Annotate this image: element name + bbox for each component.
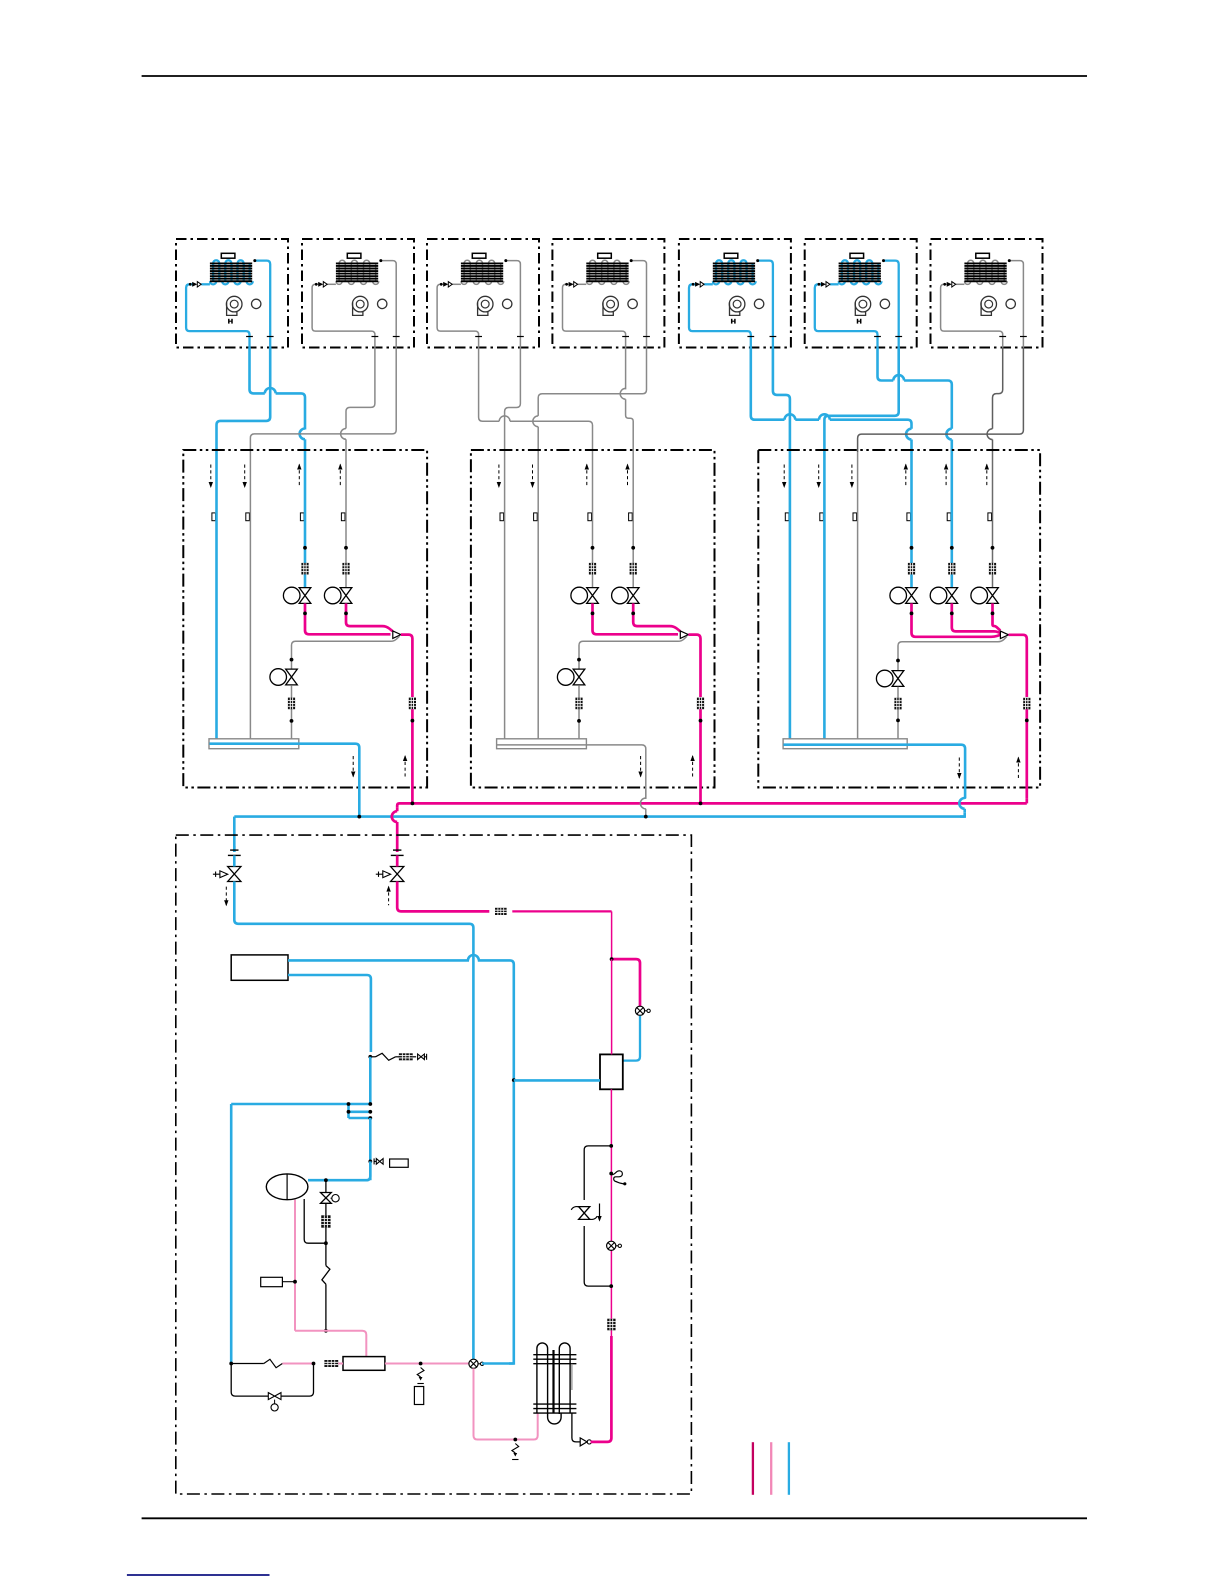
gas stop valve flow arrow: [225, 887, 227, 906]
BS unit 2 port 4 strainer: [630, 563, 637, 575]
BS unit 1 discharge line to field piping: [411, 709, 414, 803]
subcool branch to injection EEV: [612, 959, 640, 1006]
discharge check valve: [580, 1438, 587, 1446]
economizer loop left: [230, 1104, 233, 1364]
BS unit 1 port 1 flow arrow: [210, 465, 212, 488]
BS unit 2 motorized valve for port 4: [612, 587, 629, 604]
footer link underline: [127, 1574, 270, 1576]
BS unit 1 port 3 union: [300, 513, 304, 521]
indoor unit 3 pipe unions: [475, 336, 482, 338]
indoor unit 2 fan motor: [378, 299, 387, 308]
compressor discharge to oil separator: [474, 1368, 538, 1439]
indoor unit 4 room-thermistor label box: [598, 253, 612, 258]
BS unit 2 port 3 pipe: [592, 452, 594, 588]
indoor unit 7 pipe unions: [999, 336, 1006, 338]
oil return line to junction: [325, 1228, 327, 1244]
indoor unit 5 enclosure: [679, 239, 791, 348]
wire unit3 gas to BS2 port1: [505, 348, 521, 453]
indoor unit 5 drain pump mark: [731, 319, 733, 324]
riser electronic expansion valve: [607, 1241, 616, 1250]
bypass solenoid loop: [231, 1364, 268, 1397]
BS unit 3 port 1 pipe: [789, 452, 792, 739]
indoor unit 6 expansion valve: [826, 282, 830, 287]
right end of suction main: [963, 797, 966, 800]
indoor unit 7 liquid pipe: [956, 283, 965, 285]
legend discharge gas line sample: [752, 1442, 754, 1495]
BS unit 1 enclosure: [183, 450, 427, 788]
BS unit 3 port 5 pipe: [950, 452, 953, 588]
BS unit 2 port 1 flow arrow: [498, 465, 500, 488]
indoor unit 3 liquid pipe: [452, 283, 461, 285]
bypass flow arrow: [599, 1204, 601, 1217]
BS unit 3 port 3 pipe: [857, 452, 859, 739]
liquid line strainer: [495, 908, 507, 915]
junction BS2 discharge to main: [699, 802, 703, 806]
indoor unit 3 fan: [477, 296, 493, 312]
indoor unit 4 gas pipe: [631, 261, 646, 348]
indoor unit 5 fan: [729, 296, 745, 312]
suction connection from receiver box top: [288, 959, 469, 962]
legend suction gas line sample: [788, 1442, 790, 1495]
BS unit 1 merge joint: [393, 631, 401, 639]
oil separator coil: [537, 1343, 548, 1414]
indoor unit 3 gas pipe: [506, 261, 521, 348]
BS2 suction drop with crossover: [645, 788, 647, 799]
BS unit 3 port 2 union: [820, 513, 824, 521]
indoor unit 1 pipe unions: [246, 336, 253, 338]
indoor unit 7 expansion valve: [952, 282, 956, 287]
BS unit 3 port 3 flow arrow: [851, 465, 853, 488]
BS unit 3 high-pressure merge from port6 valve: [993, 603, 1001, 630]
BS unit 3 port 6 strainer: [989, 563, 996, 575]
BS unit 3 port 4 strainer: [908, 563, 915, 575]
BS unit 3 port 1 flow arrow: [783, 465, 785, 488]
indoor unit 5 room-thermistor label box: [724, 253, 738, 258]
wire unit7 gas to BS3 port3: [858, 348, 1024, 453]
compressor: [343, 1357, 385, 1371]
four-way joint expansion valve: [469, 1359, 478, 1368]
indoor unit 6 fan: [855, 296, 871, 312]
BS unit 3 motorized valve for port 4: [890, 587, 907, 604]
BS unit 2 port 1 pipe: [504, 452, 506, 739]
indoor unit 3 expansion valve: [448, 282, 452, 287]
accumulator inlet line: [308, 1161, 370, 1180]
bottom horizontal rule: [142, 1517, 1087, 1519]
accumulator oil drain line: [304, 1199, 326, 1243]
BS unit 1 port 2 pipe: [249, 452, 251, 739]
suction line to accumulator: [369, 1118, 372, 1180]
indoor unit 7 enclosure: [931, 239, 1043, 348]
indoor unit 5 gas pipe: [758, 261, 773, 348]
BS unit 1 motorized valve for port 4: [324, 587, 341, 604]
wire unit7 liquid to BS3 port6: [993, 348, 1003, 429]
BS unit 2 port 4 union: [629, 513, 633, 521]
BS unit 3 high-pressure merge from port5 valve: [952, 603, 1001, 633]
indoor unit 3 room-thermistor label box: [472, 253, 486, 258]
indoor unit 1 fan motor: [252, 299, 261, 308]
BS unit 1 port 4 union: [341, 513, 345, 521]
BS unit 3 port 5 strainer: [948, 563, 955, 575]
BS unit 2 discharge strainer: [697, 698, 704, 710]
compressor discharge pink line: [385, 1363, 469, 1365]
BS unit 3 suction line to header: [897, 687, 899, 739]
wire unit6 gas to BS3 port2: [824, 348, 898, 453]
BS unit 2 suction strainer: [575, 698, 582, 710]
indoor unit 2 room-thermistor label box: [347, 253, 361, 258]
BS unit 3 port 4 flow arrow: [905, 465, 907, 488]
bypass pressure regulating valve: [579, 1207, 590, 1220]
injection electronic expansion valve: [635, 1006, 644, 1015]
indoor unit 5 liquid pipe: [704, 283, 713, 285]
indoor unit 5 heat exchanger coil: [713, 260, 756, 284]
indoor unit 6 heat exchanger coil: [839, 260, 882, 284]
economizer strainer: [324, 1360, 338, 1367]
junction BS1 discharge to main: [411, 802, 415, 806]
BS unit 2 port 4 flow arrow: [627, 465, 629, 488]
wire unit5 gas to BS3 port1: [773, 348, 790, 453]
BS unit 2 suction gas out: [497, 744, 586, 746]
indoor unit 2 enclosure: [302, 239, 414, 348]
oil heat exchange zigzag: [231, 1103, 370, 1106]
discharge relief valve branch: [512, 1444, 519, 1454]
economizer capillary: [231, 1363, 264, 1365]
indoor unit 3 heat exchanger coil: [461, 260, 504, 284]
indoor unit 6 liquid pipe: [830, 283, 839, 285]
wire unit2 liquid to BS1 port4: [346, 348, 375, 429]
BS unit 1 suction gas out: [210, 742, 299, 745]
legend compressor line sample: [770, 1442, 772, 1495]
liquid line into unit: [396, 855, 399, 866]
capillary with solenoid branch: [368, 1160, 372, 1164]
BS unit 3 discharge strainer: [1023, 698, 1030, 710]
indoor unit 4 fan motor: [628, 299, 637, 308]
indoor unit 4 fan: [603, 296, 619, 312]
BS unit 1 motorized valve for port 3: [283, 587, 300, 604]
indoor unit 1 room-thermistor label box: [221, 253, 235, 258]
BS unit 2 suction solenoid valve: [557, 669, 574, 686]
field discharge gas main line: [396, 822, 399, 852]
BS unit 2 suction line to header: [578, 685, 580, 739]
BS unit 3 port 5 union: [947, 513, 951, 521]
BS unit 2 port 3 flow arrow: [586, 465, 588, 488]
oil separator outlet: [572, 1413, 580, 1442]
BS unit 3 motorized valve for port 5: [930, 587, 947, 604]
BS unit 2 enclosure: [471, 450, 715, 788]
oil return branch from suction: [325, 1180, 327, 1192]
BS unit 1 port 4 flow arrow: [339, 465, 341, 488]
BS unit 3 port 6 flow arrow: [986, 465, 988, 488]
wire unit4 liquid to BS2 port4: [625, 348, 627, 390]
field suction gas main line: [233, 846, 236, 852]
wire unit6 liquid to BS3 port5: [878, 348, 894, 381]
BS unit 1 port 1 union: [212, 513, 216, 521]
BS unit 1 bottom flow arrows: [352, 756, 354, 777]
bypass solenoid valve: [268, 1393, 281, 1400]
BS unit 1 suction return line: [292, 636, 400, 669]
suction line down: [369, 1057, 372, 1104]
BS unit 1 discharge gas line out: [401, 635, 413, 697]
outdoor unit enclosure: [176, 835, 692, 1494]
BS unit 2 port 2 flow arrow: [532, 465, 534, 488]
indoor unit 7 gas pipe: [1009, 261, 1023, 348]
gas stop valve service port: [213, 873, 220, 875]
BS unit 1 port 1 pipe: [215, 452, 218, 739]
oil return capillary: [325, 1243, 327, 1265]
indoor unit 1 heat exchanger coil: [210, 260, 253, 284]
indoor unit 4 expansion valve: [574, 282, 578, 287]
indoor unit 7 fan: [981, 296, 997, 312]
BS unit 3 port 5 flow arrow: [945, 465, 947, 488]
BS3 suction drop with crossover: [959, 798, 964, 809]
indoor unit 1 drain pump mark: [228, 319, 230, 324]
BS unit 3 bottom flow arrows: [958, 758, 960, 779]
indoor unit 7 heat exchanger coil: [964, 260, 1007, 284]
suction drum line fittings branch: [368, 1055, 372, 1059]
BS unit 3 high-pressure merge from port4 valve: [912, 603, 1001, 636]
BS unit 3 port 6 union: [988, 513, 992, 521]
indoor unit 6 enclosure: [805, 239, 917, 348]
BS unit 1 port 2 flow arrow: [244, 465, 246, 488]
BS unit 3 discharge gas line out: [1009, 635, 1027, 697]
indoor unit 1 gas pipe: [255, 261, 270, 348]
BS unit 3 suction strainer: [894, 698, 901, 710]
BS unit 3 port 3 union: [853, 513, 857, 521]
BS unit 1 port 2 union: [246, 513, 250, 521]
indoor unit 7 fan motor: [1006, 299, 1015, 308]
BS unit 1 suction solenoid valve: [270, 669, 287, 686]
BS unit 3 discharge line to field piping: [1025, 709, 1028, 798]
liquid stop valve: [393, 849, 401, 851]
BS unit 1 port 3 flow arrow: [298, 465, 300, 488]
gas stop valve: [230, 849, 238, 851]
BS unit 1 high-pressure merge from port4 valve: [346, 603, 393, 631]
indoor unit 7 room-thermistor label box: [976, 253, 990, 258]
top horizontal rule: [142, 75, 1087, 77]
indoor unit 6 gas pipe: [884, 261, 899, 348]
oil level sensor: [261, 1277, 283, 1286]
hot-gas bypass loop: [584, 1146, 611, 1200]
riser capillary branch: [609, 1172, 613, 1176]
BS unit 3 suction solenoid valve: [876, 670, 893, 687]
compressor suction from accumulator: [294, 1200, 296, 1331]
indoor unit 5 pipe unions: [747, 336, 754, 338]
wire unit2 gas to BS1 port2: [250, 348, 396, 453]
wire unit4 gas to BS2 port2: [538, 348, 646, 416]
wire unit1 liquid to BS1 port3: [250, 348, 265, 394]
cyan line to subcooler left port: [514, 1079, 600, 1082]
indoor unit 1 enclosure: [176, 239, 288, 348]
indoor unit 6 room-thermistor label box: [850, 253, 864, 258]
wire unit3 liquid to BS2 port3: [479, 348, 500, 422]
indoor unit 6 fan motor: [880, 299, 889, 308]
indoor unit 2 liquid pipe: [327, 283, 336, 285]
BS unit 3 merge joint: [1000, 631, 1008, 639]
BS unit 2 merge joint: [680, 631, 688, 639]
gas line into unit: [233, 855, 236, 866]
indoor unit 6 pipe unions: [874, 336, 881, 338]
BS unit 1 suction strainer: [288, 698, 295, 710]
indoor unit 5 fan motor: [754, 299, 763, 308]
indoor unit 6 drain pump mark: [857, 319, 859, 324]
BS unit 3 port 2 flow arrow: [818, 465, 820, 488]
indoor unit 2 gas pipe: [381, 261, 396, 348]
indoor unit 2 fan: [352, 296, 368, 312]
BS unit 2 motorized valve for port 3: [571, 587, 588, 604]
BS unit 2 discharge gas line out: [688, 635, 700, 697]
BS unit 1 port 4 strainer: [342, 563, 349, 575]
BS unit 3 enclosure: [758, 450, 1040, 788]
liquid stop valve flow arrow: [388, 887, 390, 906]
subcooler plate heat exchanger: [600, 1054, 623, 1089]
BS unit 3 port 1 union: [785, 513, 789, 521]
indoor unit 4 enclosure: [552, 239, 664, 348]
injection line to subcooler: [623, 1016, 640, 1061]
BS unit 2 gas header: [497, 739, 587, 749]
BS unit 2 port 2 pipe: [537, 452, 539, 739]
main liquid riser: [610, 1089, 612, 1319]
oil return strainer: [325, 1203, 327, 1215]
BS unit 2 port 1 union: [500, 513, 504, 521]
riser strainer: [610, 1330, 612, 1336]
wire unit1 gas to BS1 port1: [217, 348, 271, 453]
BS unit 2 port 4 pipe: [632, 452, 634, 588]
indoor unit 1 expansion valve: [197, 282, 201, 287]
indoor unit 3 enclosure: [427, 239, 539, 348]
indoor unit 1 fan: [226, 296, 242, 312]
BS unit 1 high-pressure merge from port3 valve: [305, 603, 391, 634]
BS unit 3 port 4 union: [907, 513, 911, 521]
BS unit 2 high-pressure merge from port4 valve: [633, 603, 680, 631]
indoor unit 3 fan motor: [503, 299, 512, 308]
BS unit 1 gas header: [209, 739, 299, 749]
BS unit 3 suction gas out: [784, 743, 908, 746]
BS unit 3 port 2 pipe: [823, 452, 826, 739]
BS unit 3 motorized valve for port 6: [971, 587, 988, 604]
indoor unit 4 liquid pipe: [578, 283, 587, 285]
indoor unit 2 pipe unions: [372, 336, 379, 338]
wire unit5 liquid to BS3 port4: [751, 348, 785, 420]
receiver box bottom connection to suction drum line: [288, 975, 371, 1052]
junction BS1 suction to main: [357, 815, 361, 819]
indoor unit 1 liquid pipe: [201, 283, 210, 285]
indoor unit 2 heat exchanger coil: [336, 260, 379, 284]
BS unit 2 suction return line: [579, 636, 687, 669]
BS unit 1 port 3 pipe: [304, 452, 307, 588]
accumulator: [266, 1174, 308, 1200]
BS unit 3 gas header: [783, 739, 907, 749]
BS unit 3 port 6 pipe: [992, 452, 994, 588]
BS unit 1 suction line to header: [291, 685, 293, 739]
receiver outlet solenoid assembly box: [231, 955, 288, 980]
BS unit 1 discharge strainer: [409, 698, 416, 710]
discharge line to heat exchanger riser: [591, 1336, 612, 1442]
economizer line pink: [282, 1363, 313, 1365]
BS unit 2 discharge line to field piping: [699, 709, 702, 803]
BS unit 1 port 3 strainer: [301, 563, 308, 575]
BS unit 2 port 3 strainer: [589, 563, 596, 575]
suction link to right riser: [482, 1362, 514, 1365]
indoor unit 4 heat exchanger coil: [586, 260, 629, 284]
discharge relief branch: [417, 1368, 424, 1378]
liquid line to subcooler: [512, 910, 611, 912]
liquid line through subcooler: [611, 959, 613, 1054]
BS unit 2 high-pressure merge from port3 valve: [593, 603, 679, 634]
BS unit 1 port 4 pipe: [345, 452, 347, 588]
BS unit 2 port 2 union: [534, 513, 538, 521]
BS unit 2 port 3 union: [588, 513, 592, 521]
oil return valve: [321, 1193, 332, 1204]
BS unit 3 suction return line: [898, 636, 1007, 670]
liquid stop valve service port: [376, 873, 383, 875]
BS unit 2 bottom flow arrows: [640, 756, 642, 777]
indoor unit 4 pipe unions: [622, 336, 629, 338]
indoor unit 2 expansion valve: [323, 282, 327, 287]
BS unit 3 port 4 pipe: [910, 452, 913, 588]
indoor unit 5 expansion valve: [700, 282, 704, 287]
